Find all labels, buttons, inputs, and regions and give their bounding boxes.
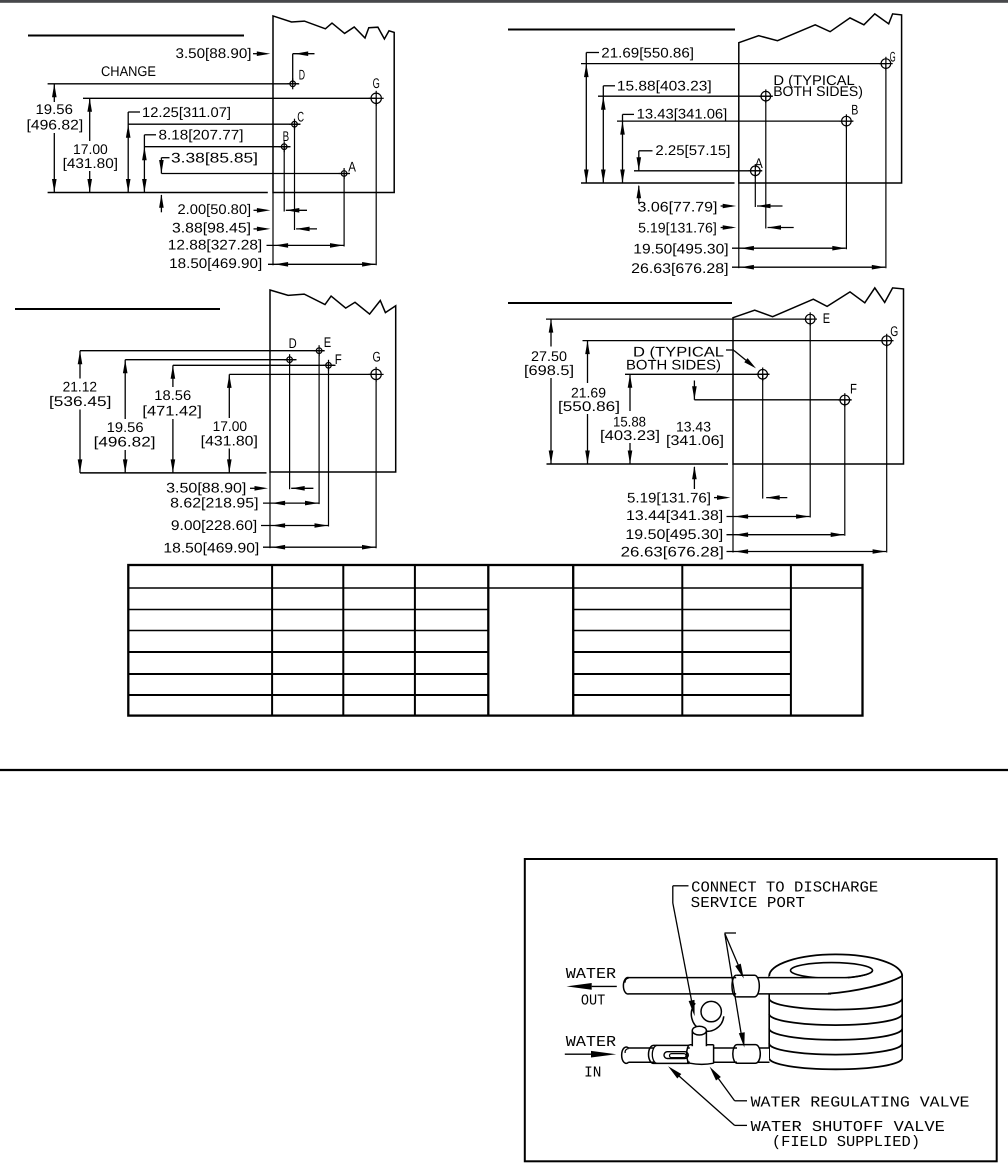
- dimension 26.63[676.28] detail 2: [631, 260, 885, 276]
- svg-text:BOTH SIDES): BOTH SIDES): [626, 357, 721, 373]
- dimension 2.25 text detail 2: [655, 142, 730, 158]
- note D typical both sides detail 2: [773, 72, 863, 99]
- dimension 17.00 text detail 3: [201, 418, 258, 448]
- panel outline detail 1: [273, 16, 394, 193]
- svg-text:WATER REGULATING VALVE: WATER REGULATING VALVE: [751, 1094, 970, 1112]
- extension line hole F detail 3: [173, 364, 336, 366]
- water coil top ring inner opening: [791, 963, 873, 979]
- extension drop line panel edge detail 4: [732, 464, 734, 553]
- extension line hole D detail 1: [48, 83, 300, 85]
- discharge port stub cylinder: [692, 1026, 706, 1046]
- svg-text:8.18[207.77]: 8.18[207.77]: [159, 126, 244, 142]
- upper pipe sleeve fitting: [732, 975, 759, 997]
- dimension 3.50[88.90] detail 1: [176, 45, 315, 84]
- water shutoff valve body: [649, 1045, 690, 1063]
- extension line hole A detail 2: [634, 170, 762, 172]
- text WATER IN: [566, 1033, 616, 1081]
- text WATER SHUTOFF VALVE: [751, 1118, 945, 1136]
- hole A detail 2: [749, 164, 763, 178]
- dimension 5.19[131.76] detail 4: [627, 489, 787, 505]
- extension line hole E detail 3: [80, 350, 325, 352]
- dimension 13.43[341.06] line detail 4: [692, 381, 697, 490]
- extension line hole G detail 2: [581, 63, 886, 65]
- hole C detail 1: [289, 119, 300, 130]
- extension line hole D detail 4: [625, 373, 770, 375]
- extension drop line panel edge detail 3: [269, 472, 271, 548]
- extension drop line hole E detail 3: [318, 351, 320, 504]
- svg-text:18.50[469.90]: 18.50[469.90]: [169, 255, 262, 271]
- leader branch to upper sleeve: [725, 934, 744, 979]
- extension drop line hole F detail 3: [328, 365, 330, 526]
- svg-text:SERVICE PORT: SERVICE PORT: [691, 894, 805, 912]
- water out arrow: [567, 983, 617, 990]
- leader branch to lower sleeve: [725, 934, 745, 1048]
- dimension 26.63[676.28] detail 4: [621, 543, 887, 559]
- svg-text:[698.5]: [698.5]: [524, 362, 574, 378]
- dimension baseline detail 2: [581, 182, 735, 184]
- svg-text:E: E: [823, 310, 830, 326]
- svg-text:5.19[131.76]: 5.19[131.76]: [638, 220, 717, 236]
- dimension 19.56 text detail 3: [94, 419, 156, 449]
- hole label A detail 2: [755, 155, 764, 171]
- extension drop line hole G detail 2: [885, 64, 887, 269]
- hole label B detail 1: [283, 128, 290, 144]
- svg-text:19.56: 19.56: [36, 101, 74, 117]
- extension drop line hole D detail 4: [762, 374, 764, 498]
- extension line hole F detail 4: [694, 399, 851, 401]
- extension line hole C detail 1: [128, 123, 300, 125]
- dimension 2.25[57.15] line detail 2: [637, 151, 653, 203]
- dimension 15.88[403.23] line detail 4: [628, 374, 633, 464]
- svg-text:B: B: [283, 128, 290, 144]
- hole label E detail 3: [324, 334, 331, 350]
- hole A detail 1: [339, 168, 350, 179]
- svg-text:[496.82]: [496.82]: [27, 116, 84, 132]
- extension drop line hole C detail 1: [294, 124, 296, 230]
- dimension 15.88[403.23] line detail 2: [601, 86, 615, 183]
- text CONNECT TO DISCHARGE: [691, 879, 878, 897]
- dimension 3.88[98.45] detail 1: [172, 219, 317, 235]
- hole G detail 1: [369, 91, 384, 106]
- separator rule: [0, 769, 1008, 771]
- hole D detail 3: [284, 354, 295, 365]
- svg-text:5.19[131.76]: 5.19[131.76]: [627, 489, 711, 505]
- dimension baseline detail 3: [80, 472, 267, 474]
- dimension 19.56[496.82] line detail 1: [52, 84, 57, 193]
- dimension 19.56[496.82] line detail 3: [123, 360, 128, 473]
- svg-text:[341.06]: [341.06]: [666, 432, 724, 448]
- text CHANGE: [101, 63, 156, 79]
- extension drop line panel edge detail 1: [272, 193, 274, 266]
- svg-text:[496.82]: [496.82]: [94, 434, 156, 450]
- dimension 21.69[550.86] line detail 4: [585, 341, 590, 464]
- hole D detail 2: [759, 89, 773, 103]
- dimension 5.19[131.76] detail 2: [638, 220, 794, 236]
- extension line hole E detail 4: [546, 318, 812, 320]
- title underline detail 3: [15, 308, 220, 310]
- svg-text:26.63[676.28]: 26.63[676.28]: [621, 543, 724, 559]
- svg-text:A: A: [348, 158, 356, 174]
- extension drop line hole B detail 1: [283, 147, 285, 212]
- leader discharge two-branch tick: [725, 932, 737, 934]
- dimension 3.38 text detail 1: [171, 150, 258, 166]
- extension line hole G detail 4: [583, 340, 894, 342]
- svg-text:B: B: [851, 101, 858, 117]
- dimension 13.43 text detail 2: [637, 105, 728, 121]
- extension drop line hole G detail 4: [886, 341, 888, 553]
- svg-text:A: A: [755, 155, 764, 171]
- svg-text:D: D: [289, 335, 297, 351]
- hole label D detail 3: [289, 335, 297, 351]
- svg-text:2.25[57.15]: 2.25[57.15]: [655, 142, 730, 158]
- dimension 19.50[495.30] detail 2: [633, 240, 846, 256]
- hole label F detail 3: [335, 351, 342, 367]
- note D typical both sides detail 4: [626, 344, 734, 373]
- dimension 2.00[50.80] detail 1: [178, 201, 308, 217]
- dimension 15.88 text detail 4: [600, 414, 660, 443]
- dimension baseline detail 1: [48, 192, 268, 194]
- svg-text:F: F: [850, 381, 857, 397]
- dimension 13.43 text detail 4: [666, 419, 724, 448]
- hole E detail 4: [803, 312, 817, 326]
- dimension 3.38[85.85] line detail 1: [159, 158, 169, 213]
- water out pipe: [623, 970, 872, 994]
- extension drop line panel edge detail 2: [738, 183, 740, 268]
- extension line hole G detail 1: [83, 97, 377, 99]
- water coil rings: [769, 976, 902, 1069]
- hole label F detail 4: [850, 381, 857, 397]
- svg-text:OUT: OUT: [581, 991, 605, 1009]
- dimension 12.25 text detail 1: [142, 104, 231, 120]
- svg-text:BOTH SIDES): BOTH SIDES): [773, 83, 863, 99]
- hole label E detail 4: [823, 310, 830, 326]
- water coil top ring outer: [769, 954, 902, 988]
- dimension 18.56 text detail 3: [142, 387, 202, 419]
- svg-text:G: G: [890, 48, 896, 64]
- extension drop line hole B detail 2: [845, 121, 847, 249]
- title underline detail 4: [508, 302, 732, 304]
- svg-text:F: F: [335, 351, 342, 367]
- svg-text:21.69[550.86]: 21.69[550.86]: [601, 44, 694, 60]
- panel outline detail 3: [270, 290, 396, 472]
- specification table grid: [128, 565, 862, 716]
- dimension 17.00[431.80] line detail 3: [227, 374, 232, 473]
- svg-text:[403.23]: [403.23]: [600, 427, 660, 443]
- water in pipe: [622, 1047, 770, 1063]
- dimension 27.50[698.5] line detail 4: [549, 319, 554, 464]
- hole G detail 3: [369, 367, 384, 382]
- dimension 8.62[218.95] detail 3: [170, 494, 318, 510]
- svg-text:WATER: WATER: [566, 965, 616, 983]
- extension line hole D detail 2: [598, 95, 773, 97]
- extension drop line hole A detail 2: [754, 171, 756, 207]
- water coil outer arc over pipe: [828, 976, 902, 994]
- extension drop line hole D detail 3: [289, 360, 291, 490]
- dimension 21.12 text detail 3: [49, 379, 111, 409]
- dimension 13.44[341.38] detail 4: [626, 507, 810, 523]
- svg-text:(FIELD SUPPLIED): (FIELD SUPPLIED): [772, 1133, 920, 1151]
- extension drop line hole E detail 4: [809, 319, 811, 517]
- extension line hole G detail 3: [229, 373, 377, 375]
- extension drop line hole G detail 3: [375, 374, 377, 548]
- svg-text:[550.86]: [550.86]: [558, 398, 620, 414]
- svg-text:13.44[341.38]: 13.44[341.38]: [626, 507, 723, 523]
- svg-text:3.50[88.90]: 3.50[88.90]: [166, 480, 246, 496]
- page top border bar: [0, 0, 1008, 3]
- dimension 9.00[228.60] detail 3: [171, 517, 328, 533]
- water regulating valve tee: [687, 1045, 714, 1065]
- dimension 18.50[469.90] detail 1: [169, 255, 375, 271]
- svg-text:C: C: [297, 109, 304, 125]
- extension line hole B detail 2: [617, 120, 853, 122]
- svg-text:9.00[228.60]: 9.00[228.60]: [171, 517, 257, 533]
- hole label G detail 3: [373, 349, 381, 365]
- title underline detail 2: [508, 29, 735, 31]
- text WATER REGULATING VALVE: [751, 1094, 970, 1112]
- hole B detail 2: [840, 114, 854, 128]
- leader to shutoff valve: [668, 1066, 747, 1125]
- dimension 19.56 text detail 1: [27, 101, 84, 132]
- svg-text:D: D: [299, 66, 305, 82]
- water diagram border box: [525, 859, 997, 1161]
- svg-text:13.43[341.06]: 13.43[341.06]: [637, 105, 728, 121]
- svg-text:12.88[327.28]: 12.88[327.28]: [168, 236, 262, 252]
- title underline detail 1: [28, 35, 244, 37]
- svg-text:26.63[676.28]: 26.63[676.28]: [631, 260, 729, 276]
- dimension 12.25[311.07] line detail 1: [126, 112, 140, 193]
- svg-text:WATER: WATER: [566, 1033, 616, 1051]
- hole G detail 2: [879, 57, 893, 71]
- svg-text:E: E: [324, 334, 331, 350]
- dimension 15.88 text detail 2: [617, 77, 712, 93]
- svg-text:[431.80]: [431.80]: [201, 432, 258, 448]
- dimension 18.50[469.90] detail 3: [163, 539, 375, 555]
- svg-text:19.50[495.30]: 19.50[495.30]: [625, 526, 723, 542]
- svg-text:3.88[98.45]: 3.88[98.45]: [172, 219, 251, 235]
- svg-text:8.62[218.95]: 8.62[218.95]: [170, 494, 258, 510]
- water in arrow: [565, 1051, 616, 1058]
- panel outline detail 4: [733, 288, 904, 464]
- svg-text:2.00[50.80]: 2.00[50.80]: [178, 201, 252, 217]
- leader arrow to hole D detail 4: [734, 351, 756, 369]
- hole label A detail 1: [348, 158, 356, 174]
- svg-text:15.88[403.23]: 15.88[403.23]: [617, 77, 712, 93]
- hole F detail 3: [323, 360, 334, 371]
- leader connect-to-discharge-port: [673, 886, 695, 1016]
- hole label C detail 1: [297, 109, 304, 125]
- dimension baseline detail 4: [547, 463, 729, 465]
- extension line hole D detail 3: [125, 359, 296, 361]
- svg-text:18.50[469.90]: 18.50[469.90]: [163, 539, 259, 555]
- svg-text:G: G: [373, 75, 380, 91]
- svg-text:G: G: [890, 323, 898, 339]
- hole E detail 3: [314, 345, 325, 356]
- dimension 18.56[471.42] line detail 3: [171, 365, 176, 473]
- hole label G detail 2: [890, 48, 896, 64]
- hole D detail 1: [287, 78, 298, 89]
- dimension 21.12[536.45] line detail 3: [78, 351, 83, 473]
- dimension 3.50[88.90] detail 3: [166, 480, 313, 496]
- lower pipe sleeve fitting: [733, 1045, 761, 1064]
- dimension 21.69 text detail 2: [601, 44, 694, 60]
- hole D detail 4: [756, 368, 770, 382]
- text FIELD SUPPLIED: [772, 1133, 920, 1151]
- hole label B detail 2: [851, 101, 858, 117]
- text SERVICE PORT: [691, 894, 805, 912]
- svg-text:19.50[495.30]: 19.50[495.30]: [633, 240, 728, 256]
- water shutoff valve slot: [664, 1052, 688, 1059]
- extension drop line hole D detail 2: [765, 96, 767, 228]
- svg-text:G: G: [373, 349, 381, 365]
- svg-text:3.38[85.85]: 3.38[85.85]: [171, 150, 258, 166]
- dimension 8.18 text detail 1: [159, 126, 244, 142]
- hole F detail 4: [838, 393, 852, 407]
- hole G detail 4: [880, 334, 894, 348]
- extension drop line hole G detail 1: [375, 98, 377, 265]
- extension drop line hole F detail 4: [844, 400, 846, 536]
- hole label D detail 1: [299, 66, 305, 82]
- svg-text:3.50[88.90]: 3.50[88.90]: [176, 45, 252, 61]
- extension line hole B detail 1: [144, 146, 290, 148]
- dimension 19.50[495.30] detail 4: [625, 526, 844, 542]
- text WATER OUT: [566, 965, 616, 1010]
- svg-text:12.25[311.07]: 12.25[311.07]: [142, 104, 231, 120]
- svg-text:18.56: 18.56: [154, 387, 191, 403]
- svg-text:[431.80]: [431.80]: [63, 155, 118, 171]
- extension drop line hole A detail 1: [343, 174, 345, 247]
- svg-text:3.06[77.79]: 3.06[77.79]: [638, 198, 718, 214]
- svg-text:[471.42]: [471.42]: [142, 403, 202, 419]
- dimension 21.69 text detail 4: [558, 385, 620, 414]
- leader to regulating valve: [710, 1067, 747, 1101]
- dimension 12.88[327.28] detail 1: [168, 236, 344, 252]
- dimension 17.00[431.80] line detail 1: [87, 98, 92, 192]
- dimension 27.50 text detail 4: [524, 348, 574, 378]
- svg-text:IN: IN: [584, 1063, 601, 1081]
- discharge port curl tube: [691, 1001, 723, 1031]
- extension line hole A detail 1: [161, 173, 350, 175]
- dimension 17.00 text detail 1: [63, 141, 118, 171]
- svg-text:[536.45]: [536.45]: [49, 393, 111, 409]
- hole label G detail 1: [373, 75, 380, 91]
- hole B detail 1: [279, 141, 290, 152]
- svg-text:CHANGE: CHANGE: [101, 63, 156, 79]
- panel outline detail 2: [739, 14, 902, 183]
- dimension 13.43[341.06] line detail 2: [620, 114, 634, 183]
- dimension 21.69[550.86] line detail 2: [584, 53, 599, 184]
- hole label G detail 4: [890, 323, 898, 339]
- dimension 8.18[207.77] line detail 1: [142, 135, 156, 193]
- dimension 3.06[77.79] detail 2: [638, 198, 783, 214]
